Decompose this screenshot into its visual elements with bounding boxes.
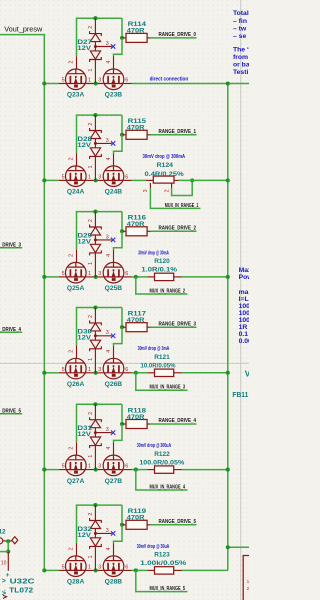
svg-text:1: 1 xyxy=(88,271,91,277)
svg-text:– tw: – tw xyxy=(233,26,247,33)
svg-text:Q25A: Q25A xyxy=(67,285,85,292)
svg-text:D31: D31 xyxy=(77,425,92,432)
svg-text:470R: 470R xyxy=(127,317,145,324)
wire between transistors xyxy=(86,469,103,471)
svg-text:Q24A: Q24A xyxy=(67,189,85,196)
svg-text:1: 1 xyxy=(88,174,91,180)
gate lead Q26A xyxy=(76,346,78,359)
transistor Q23B xyxy=(103,69,124,90)
svg-text:2: 2 xyxy=(68,547,74,550)
svg-text:5: 5 xyxy=(62,271,65,277)
wire R121 to right bus xyxy=(182,372,228,374)
svg-text:30mV drop @ 300uA: 30mV drop @ 300uA xyxy=(137,443,171,449)
junction row 1 right bus xyxy=(226,81,230,85)
wire to op-amp input xyxy=(7,541,9,551)
resistor R124 0.4R/0.25% (4-wire shunt) xyxy=(146,179,153,181)
svg-text:4: 4 xyxy=(106,447,112,450)
svg-text:R122: R122 xyxy=(154,451,170,458)
svg-text:– fin: – fin xyxy=(233,18,247,25)
svg-text:– se: – se xyxy=(233,33,246,40)
svg-text:RANGE_DRIVE_4: RANGE_DRIVE_4 xyxy=(0,327,22,333)
svg-text:2: 2 xyxy=(88,219,94,222)
resistor R123 1.00k/0.05% xyxy=(147,569,154,571)
transistor Q24A xyxy=(66,166,87,187)
wire to label RANGE_DRIVE_5 xyxy=(151,524,197,526)
junction right bus exit xyxy=(226,545,230,549)
wire R117 to Q26B gate xyxy=(114,327,123,346)
svg-text:2: 2 xyxy=(68,61,74,64)
svg-text:RANGE_DRIVE_1: RANGE_DRIVE_1 xyxy=(159,129,197,135)
svg-text:Q23A: Q23A xyxy=(67,92,85,99)
svg-text:Pow: Pow xyxy=(239,274,249,281)
junction left bus row xyxy=(42,275,46,279)
wire mux bus right xyxy=(227,84,229,571)
gate lead Q27B xyxy=(113,443,115,456)
svg-text:4: 4 xyxy=(106,61,112,64)
svg-text:470R: 470R xyxy=(127,221,145,228)
svg-text:ma: ma xyxy=(239,289,249,296)
no-connect on pin 3 of D28 xyxy=(111,141,115,145)
junction gate bus at zener xyxy=(93,113,97,117)
svg-text:4: 4 xyxy=(106,157,112,160)
svg-text:2: 2 xyxy=(88,513,94,516)
transistor Q27A xyxy=(66,455,87,476)
wire range row xyxy=(44,372,58,374)
svg-text:12V: 12V xyxy=(77,239,92,246)
svg-text:4: 4 xyxy=(106,254,112,257)
wire gate bus xyxy=(77,18,123,56)
svg-text:from: from xyxy=(233,54,248,61)
wire to label RANGE_DRIVE_1 xyxy=(151,134,197,136)
resistor R116 470R xyxy=(122,230,126,232)
wire R116 to Q25B gate xyxy=(114,231,123,250)
wire row 1 to right edge xyxy=(132,83,250,85)
svg-text:direct connection: direct connection xyxy=(150,76,189,82)
gate lead Q24A xyxy=(76,153,78,166)
wire stub RANGE_DRIVE_4 at left edge xyxy=(0,331,22,333)
junction row 5 right bus xyxy=(226,468,230,472)
svg-text:Total: Total xyxy=(233,10,249,17)
wire between transistors xyxy=(86,83,103,85)
resistor R121 10.0R/0.05% xyxy=(147,372,154,374)
wire between transistors xyxy=(86,179,103,181)
svg-text:V-: V- xyxy=(2,589,8,595)
svg-text:470R: 470R xyxy=(127,28,145,35)
svg-text:10: 10 xyxy=(1,561,7,567)
wire gate bus xyxy=(77,115,123,153)
gate lead Q25A xyxy=(76,250,78,263)
svg-text:2: 2 xyxy=(164,189,170,192)
svg-text:MUX_IN_RANGE_2: MUX_IN_RANGE_2 xyxy=(150,288,186,294)
wire sense pin3 to MUX_IN_RANGE_1 xyxy=(150,188,200,208)
svg-text:30mV drop @ 30mA: 30mV drop @ 30mA xyxy=(138,250,169,256)
svg-text:2: 2 xyxy=(88,26,94,29)
svg-text:2: 2 xyxy=(68,350,74,353)
wire gate bus xyxy=(77,404,123,442)
junction MUX tap row 4 xyxy=(134,371,138,375)
svg-text:TL072: TL072 xyxy=(9,585,33,594)
svg-text:100: 100 xyxy=(239,317,249,324)
sheet divider vertical line xyxy=(240,0,242,600)
svg-text:10.0R/0.05%: 10.0R/0.05% xyxy=(141,363,176,370)
svg-text:D30: D30 xyxy=(77,328,92,335)
svg-text:RANGE_DRIVE_4: RANGE_DRIVE_4 xyxy=(159,418,197,424)
svg-text:MUX_IN_RANGE_3: MUX_IN_RANGE_3 xyxy=(150,385,186,391)
svg-text:U32C: U32C xyxy=(10,576,36,585)
svg-text:100: 100 xyxy=(239,303,249,310)
svg-text:3: 3 xyxy=(106,427,109,433)
op-amp inverting input marker xyxy=(3,595,7,598)
junction zener to source node xyxy=(94,178,98,182)
junction at R118 left terminal xyxy=(120,422,124,426)
wire range row xyxy=(44,179,58,181)
svg-text:12V: 12V xyxy=(77,431,92,438)
svg-text:470R: 470R xyxy=(127,414,145,421)
svg-text:470R: 470R xyxy=(127,515,145,522)
svg-text:1: 1 xyxy=(88,78,91,84)
svg-text:R120: R120 xyxy=(154,258,170,265)
svg-text:1: 1 xyxy=(88,367,91,373)
pin 3 sense lead of R124 xyxy=(149,183,151,188)
svg-text:RANGE_DRIVE_2: RANGE_DRIVE_2 xyxy=(159,226,197,232)
svg-text:RANGE_DRIVE_3: RANGE_DRIVE_3 xyxy=(0,243,21,249)
junction zener to source node xyxy=(94,568,98,572)
wire row 4 left of shunt xyxy=(132,372,148,374)
junction zener to source node xyxy=(94,275,98,279)
transistor Q26A xyxy=(66,358,87,379)
wire gate bus xyxy=(77,505,123,543)
junction zener to source node xyxy=(94,468,98,472)
resistor R122 100.0R/0.05% xyxy=(147,469,154,471)
no-connect on pin 3 of D30 xyxy=(111,334,115,338)
svg-text:1: 1 xyxy=(88,262,94,265)
wire R122 to right bus xyxy=(182,469,228,471)
gate lead Q27A xyxy=(76,442,78,455)
transistor Q28A xyxy=(66,556,87,577)
wire tap to MUX_IN_RANGE_4 xyxy=(136,470,188,490)
junction left bus row xyxy=(42,178,46,182)
svg-text:0.00: 0.00 xyxy=(239,338,249,345)
wire between transistors xyxy=(86,569,103,571)
resistor R120 1.0R/0.1% xyxy=(147,276,154,278)
junction left bus row xyxy=(42,568,46,572)
svg-text:Q28B: Q28B xyxy=(105,579,123,586)
wire between transistors xyxy=(86,276,103,278)
svg-text:3: 3 xyxy=(98,367,101,373)
svg-text:3: 3 xyxy=(106,528,109,534)
gate lead Q26B xyxy=(113,346,115,359)
junction MUX tap row 5 xyxy=(134,468,138,472)
svg-text:Q25B: Q25B xyxy=(105,285,123,292)
wire R120 to right bus xyxy=(182,276,228,278)
zener diode pair D32 12V xyxy=(90,505,112,570)
svg-text:5: 5 xyxy=(62,564,65,570)
svg-text:1: 1 xyxy=(88,69,94,72)
wire to label RANGE_DRIVE_3 xyxy=(151,326,197,328)
junction gate bus at zener xyxy=(93,503,97,507)
svg-text:1: 1 xyxy=(88,464,91,470)
wire from left edge xyxy=(0,551,8,553)
wire range row xyxy=(44,469,58,471)
svg-text:12V: 12V xyxy=(77,532,92,539)
svg-text:1: 1 xyxy=(88,166,94,169)
wire R114 to Q23B gate xyxy=(114,38,123,57)
svg-text:100.0R/0.05%: 100.0R/0.05% xyxy=(139,459,184,466)
wire between diamond terminals xyxy=(3,540,12,542)
gate lead Q23A xyxy=(76,56,78,69)
wire stub RANGE_DRIVE_5 at left edge xyxy=(0,413,22,415)
svg-text:12V: 12V xyxy=(77,142,92,149)
wire to label RANGE_DRIVE_4 xyxy=(151,423,197,425)
gate lead Q23B xyxy=(113,57,115,70)
svg-text:3: 3 xyxy=(106,41,109,47)
wire tap to MUX_IN_RANGE_2 xyxy=(136,277,188,294)
wire row 2 to shunt xyxy=(132,179,146,181)
wire row 3 left of shunt xyxy=(132,276,148,278)
svg-text:I=L: I=L xyxy=(239,296,249,303)
svg-text:30mV drop @ 300mA: 30mV drop @ 300mA xyxy=(143,154,186,160)
svg-text:RANGE_DRIVE_0: RANGE_DRIVE_0 xyxy=(159,32,197,38)
wire to label RANGE_DRIVE_0 xyxy=(151,37,197,39)
svg-text:12V: 12V xyxy=(77,45,92,52)
sheet divider horizontal line xyxy=(0,362,249,364)
svg-text:1R: 1R xyxy=(239,324,248,331)
wire gate bus to R115 xyxy=(121,115,123,135)
resistor R117 470R xyxy=(122,326,126,328)
svg-text:2: 2 xyxy=(68,157,74,160)
svg-text:5: 5 xyxy=(62,174,65,180)
svg-text:5: 5 xyxy=(62,367,65,373)
svg-text:0.1: 0.1 xyxy=(239,331,249,338)
svg-text:Q28A: Q28A xyxy=(67,579,85,586)
junction zener to source node xyxy=(94,81,98,85)
junction left bus row xyxy=(42,81,46,85)
svg-text:Q24B: Q24B xyxy=(105,189,123,196)
svg-text:RANGE_DRIVE_5: RANGE_DRIVE_5 xyxy=(159,519,197,525)
svg-text:R124: R124 xyxy=(157,162,174,169)
svg-text:1: 1 xyxy=(247,579,249,584)
svg-text:Max: Max xyxy=(239,267,249,274)
svg-text:6: 6 xyxy=(125,464,128,470)
wire Vout_presw xyxy=(0,35,44,571)
junction at R114 left terminal xyxy=(120,36,124,40)
svg-text:D29: D29 xyxy=(77,233,92,240)
junction at R116 left terminal xyxy=(120,229,124,233)
wire right bus to edge xyxy=(228,546,249,548)
wire range row xyxy=(44,83,58,85)
svg-text:RANGE_DRIVE_5: RANGE_DRIVE_5 xyxy=(0,409,21,415)
wire stub RANGE_DRIVE_3 at left edge xyxy=(0,247,22,249)
wire gate bus xyxy=(77,212,123,250)
gate lead Q25B xyxy=(113,250,115,263)
svg-text:Q26B: Q26B xyxy=(105,381,123,388)
no-connect on pin 3 of D29 xyxy=(111,238,115,242)
junction left bus row xyxy=(42,371,46,375)
svg-text:MUX_IN_RANGE_1: MUX_IN_RANGE_1 xyxy=(165,203,199,209)
svg-text:6: 6 xyxy=(125,78,128,84)
svg-text:100: 100 xyxy=(239,310,249,317)
wire R124 to right bus xyxy=(179,179,228,181)
svg-text:VB: VB xyxy=(245,369,249,378)
wire range row xyxy=(44,569,58,571)
svg-text:1: 1 xyxy=(88,358,94,361)
svg-text:5: 5 xyxy=(62,464,65,470)
wire gate bus xyxy=(77,308,123,346)
svg-text:470R: 470R xyxy=(127,125,145,132)
svg-text:3: 3 xyxy=(98,464,101,470)
wire R115 to Q24B gate xyxy=(114,135,123,154)
svg-text:12: 12 xyxy=(0,529,6,536)
wire tap to MUX_IN_RANGE_3 xyxy=(136,373,188,391)
svg-text:6: 6 xyxy=(125,367,128,373)
svg-text:12V: 12V xyxy=(77,334,92,341)
junction gate bus at zener xyxy=(93,305,97,309)
junction zener to source node xyxy=(94,371,98,375)
transistor Q25A xyxy=(66,262,87,283)
svg-text:3: 3 xyxy=(106,330,109,336)
junction gate bus at zener xyxy=(93,402,97,406)
svg-text:1.00k/0.05%: 1.00k/0.05% xyxy=(140,560,186,567)
wire R123 to right bus xyxy=(182,569,228,571)
junction row 3 right bus xyxy=(226,275,230,279)
gate lead Q28A xyxy=(76,543,78,556)
svg-text:MUX_IN_RANGE_4: MUX_IN_RANGE_4 xyxy=(150,484,186,490)
svg-text:D32: D32 xyxy=(77,526,92,533)
component box bottom right (clipped) xyxy=(243,556,283,600)
junction gate bus at zener xyxy=(93,210,97,214)
resistor R115 470R xyxy=(122,134,126,136)
svg-text:2: 2 xyxy=(247,586,249,591)
wire gate bus to R116 xyxy=(121,212,123,232)
zener diode pair D31 12V xyxy=(90,404,112,469)
transistor Q23A xyxy=(66,69,87,90)
wire range row xyxy=(44,276,58,278)
svg-text:D27: D27 xyxy=(77,39,92,46)
svg-text:Testi: Testi xyxy=(233,69,248,76)
zener diode pair D29 12V xyxy=(90,212,112,277)
svg-text:2: 2 xyxy=(68,447,74,450)
junction at R117 left terminal xyxy=(120,325,124,329)
transistor Q26B xyxy=(103,358,124,379)
svg-text:MUX_IN_RANGE_5: MUX_IN_RANGE_5 xyxy=(150,586,186,592)
junction MUX tap row 6 xyxy=(134,568,138,572)
resistor R114 470R xyxy=(122,37,126,39)
op-amp U32C non-inverting input pin xyxy=(7,552,9,571)
diamond terminal xyxy=(12,537,18,544)
gate lead Q28B xyxy=(113,543,115,556)
svg-text:D28: D28 xyxy=(77,136,92,143)
junction row 4 right bus xyxy=(226,371,230,375)
no-connect on pin 3 of D27 xyxy=(111,44,115,48)
svg-text:3: 3 xyxy=(143,189,149,192)
svg-text:1: 1 xyxy=(88,564,91,570)
svg-text:3: 3 xyxy=(106,234,109,240)
svg-text:3: 3 xyxy=(98,78,101,84)
wire R119 to Q28B gate xyxy=(114,525,123,544)
gate lead Q24B xyxy=(113,153,115,166)
svg-text:1: 1 xyxy=(88,455,94,458)
svg-text:3: 3 xyxy=(98,564,101,570)
svg-text:R121: R121 xyxy=(154,354,170,361)
svg-text:>: > xyxy=(2,578,6,585)
transistor Q27B xyxy=(103,455,124,476)
svg-text:The ‘: The ‘ xyxy=(233,47,249,54)
svg-text:30mV drop @ 30uA: 30mV drop @ 30uA xyxy=(137,544,170,550)
no-connect on pin 3 of D32 xyxy=(111,531,115,535)
svg-text:3: 3 xyxy=(98,271,101,277)
svg-text:2: 2 xyxy=(88,315,94,318)
wire tap to MUX_IN_RANGE_5 xyxy=(136,570,188,591)
svg-text:4: 4 xyxy=(106,350,112,353)
svg-text:6: 6 xyxy=(125,271,128,277)
svg-text:30mV drop @ 3mA: 30mV drop @ 3mA xyxy=(138,346,170,352)
transistor Q24B xyxy=(103,166,124,187)
svg-text:1: 1 xyxy=(88,556,94,559)
junction gate bus at zener xyxy=(93,16,97,20)
zener diode pair D27 12V xyxy=(90,18,112,83)
wire gate bus to R119 xyxy=(121,505,123,525)
svg-text:6: 6 xyxy=(125,564,128,570)
resistor R119 470R xyxy=(122,524,126,526)
transistor Q28B xyxy=(103,556,124,577)
svg-text:3: 3 xyxy=(106,138,109,144)
clipped component at left edge xyxy=(0,538,3,544)
svg-text:Q26A: Q26A xyxy=(67,381,85,388)
svg-text:2: 2 xyxy=(88,123,94,126)
svg-text:0.4R/0.25%: 0.4R/0.25% xyxy=(145,171,184,178)
svg-text:2: 2 xyxy=(68,254,74,257)
svg-text:6: 6 xyxy=(125,174,128,180)
resistor R118 470R xyxy=(122,423,126,425)
no-connect on pin 3 of D31 xyxy=(111,430,115,434)
wire to label RANGE_DRIVE_2 xyxy=(151,230,197,232)
wire R118 to Q27B gate xyxy=(114,424,123,443)
junction row 2 right bus xyxy=(226,178,230,182)
svg-text:or ba: or ba xyxy=(233,62,249,69)
svg-text:4: 4 xyxy=(106,547,112,550)
wire gate bus to R117 xyxy=(121,308,123,328)
junction at R115 left terminal xyxy=(120,133,124,137)
svg-text:Vout_presw: Vout_presw xyxy=(4,24,42,33)
svg-text:2: 2 xyxy=(88,412,94,415)
wire row 5 left of shunt xyxy=(132,469,148,471)
svg-text:Q23B: Q23B xyxy=(105,92,123,99)
svg-text:RANGE_DRIVE_3: RANGE_DRIVE_3 xyxy=(159,321,197,327)
junction op-amp input node xyxy=(6,550,10,554)
junction at R119 left terminal xyxy=(120,523,124,527)
svg-text:R123: R123 xyxy=(154,552,170,559)
svg-text:Q27B: Q27B xyxy=(105,478,123,485)
wire sense pin2 loop to output node xyxy=(172,180,193,195)
svg-text:Q27A: Q27A xyxy=(67,478,85,485)
junction left bus row xyxy=(42,468,46,472)
wire gate bus to R118 xyxy=(121,404,123,424)
svg-text:1.0R/0.1%: 1.0R/0.1% xyxy=(141,267,177,274)
zener diode pair D28 12V xyxy=(90,115,112,180)
zener diode pair D30 12V xyxy=(90,308,112,373)
wire gate bus to R114 xyxy=(121,18,123,38)
pin 2 sense lead of R124 xyxy=(171,183,173,188)
junction R124 output xyxy=(190,178,194,182)
svg-text:5: 5 xyxy=(62,78,65,84)
junction MUX tap row 3 xyxy=(134,275,138,279)
svg-text:FB11: FB11 xyxy=(232,390,249,399)
transistor Q25B xyxy=(103,262,124,283)
junction at diamonds xyxy=(6,539,10,543)
svg-text:3: 3 xyxy=(98,174,101,180)
wire row 6 left of shunt xyxy=(132,569,148,571)
wire between transistors xyxy=(86,372,103,374)
